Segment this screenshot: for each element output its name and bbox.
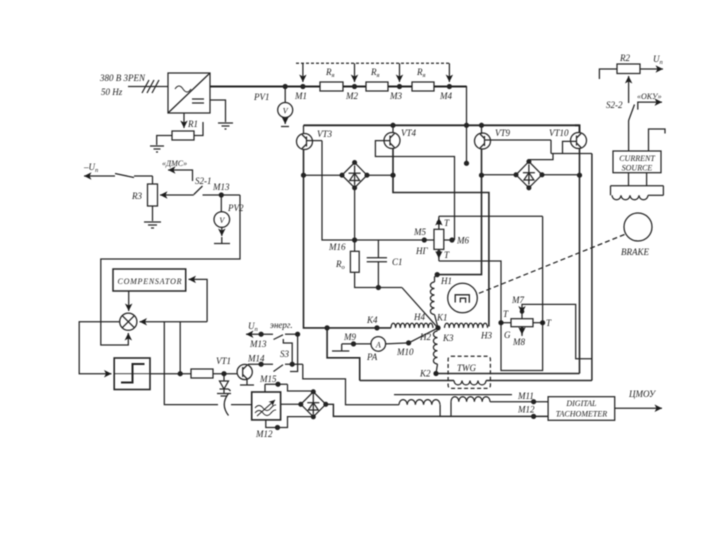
motor circle [448, 283, 478, 313]
svg-text:М15: М15 [259, 374, 277, 384]
ground (R3) [144, 221, 161, 223]
wire relay output feedback tap [179, 322, 181, 374]
switch contact to R3 [115, 174, 134, 178]
svg-text:М13: М13 [212, 182, 230, 192]
svg-text:–Uп: –Uп [83, 162, 98, 174]
svg-text:«ДМС»: «ДМС» [162, 159, 187, 168]
wire multiplier output to relay input [79, 322, 120, 374]
node M3 [398, 85, 402, 89]
wire diamond1 bottom to M16 [354, 188, 356, 252]
wire Up-energ line with switch S3 upper pole [246, 333, 273, 335]
pickup coil B [451, 397, 490, 402]
svg-text:Т: Т [444, 218, 450, 228]
svg-text:R2: R2 [619, 53, 630, 63]
svg-text:VT10: VT10 [549, 128, 569, 138]
svg-text:TWG: TWG [457, 363, 477, 373]
multiplier (circle-X) [120, 313, 137, 330]
block TWG dashed [448, 356, 490, 388]
resistor M7/M8 (thermo) [511, 319, 533, 327]
svg-text:Rо: Rо [335, 259, 346, 271]
svg-text:М10: М10 [396, 347, 414, 357]
wire resistor to VT1 base [213, 373, 237, 375]
switch S2-2 [606, 100, 623, 110]
svg-text:Rя: Rя [370, 67, 380, 79]
label PV1 [253, 92, 270, 102]
diode bridge diamond2 [516, 162, 542, 188]
wire coil A right terminal [439, 405, 441, 417]
wire net-A HG bottom right [439, 216, 543, 370]
wire Ro bottom to motor junction diagonal [355, 272, 402, 287]
svg-text:К3: К3 [442, 333, 454, 343]
thermal lead top [438, 216, 440, 229]
wire rectifier output to ground stub [210, 100, 226, 122]
svg-text:380 В 3PEN: 380 В 3PEN [99, 73, 146, 83]
wire diamond1 row [302, 173, 306, 177]
ground (VT1 emitter) [240, 384, 254, 386]
wire M14 to pickup coil A [303, 364, 399, 405]
resistor Rya3 [412, 82, 434, 91]
label R3 [131, 191, 142, 201]
wire multiplier-net to amp input [164, 322, 218, 405]
wire staircase K4 to TWG line [327, 328, 360, 381]
potentiometer R2 [619, 53, 630, 63]
transistor VT3 [303, 125, 305, 134]
wire PA to M10 and diagonal to junction [386, 343, 409, 344]
wire diamond2 row [482, 174, 517, 176]
arrow onto M1 [302, 63, 304, 82]
wire feedback into multiplier right [140, 321, 208, 323]
wire VT10 base [563, 141, 577, 153]
ammeter PA [341, 344, 343, 351]
node M13 [219, 193, 223, 197]
wire M15 line [259, 374, 277, 384]
svg-text:S2-1: S2-1 [195, 176, 212, 186]
wire compensator output to multiplier [128, 291, 130, 311]
wire bus2 collectors [304, 124, 580, 126]
svg-text:«ОКУ»: «ОКУ» [637, 92, 662, 101]
brake actuator circle [624, 213, 652, 241]
motor rotor coil H1 vertical [435, 273, 439, 277]
arrow onto M4 [448, 63, 450, 82]
svg-text:М13: М13 [249, 339, 267, 349]
label -Up [83, 162, 98, 174]
wire main bus [210, 86, 320, 88]
svg-text:энерг.: энерг. [270, 320, 293, 330]
svg-text:V: V [283, 107, 289, 116]
svg-text:R1: R1 [187, 119, 198, 129]
resistor R1 [172, 131, 194, 140]
wire CS to magnet [628, 173, 630, 186]
potentiometer R3 [148, 184, 158, 206]
svg-text:Rя: Rя [416, 67, 426, 79]
svg-text:К4: К4 [366, 315, 378, 325]
label R1 [187, 119, 198, 129]
svg-text:К2: К2 [419, 369, 431, 379]
svg-text:TACHOMETER: TACHOMETER [556, 410, 608, 419]
svg-text:V: V [219, 216, 225, 225]
svg-text:BRAKE: BRAKE [621, 247, 649, 257]
svg-text:Uп: Uп [653, 54, 663, 66]
svg-text:Н3: Н3 [480, 331, 492, 341]
svg-text:G: G [504, 330, 511, 340]
wire VT9 emitter to motor H1 [437, 175, 481, 274]
text 380V 3PEN label [99, 73, 146, 97]
transistor VT10 [575, 125, 580, 132]
voltmeter PV2 [227, 203, 244, 213]
svg-text:Н4: Н4 [413, 312, 425, 322]
svg-text:VT1: VT1 [216, 356, 231, 366]
svg-text:М12: М12 [255, 429, 273, 439]
wire tachometer output [615, 407, 662, 409]
brake electromagnet coil [611, 185, 664, 187]
resistor Rya1 [320, 82, 343, 91]
transistor VT1 [216, 356, 231, 366]
svg-text:С1: С1 [392, 257, 403, 267]
svg-text:М2: М2 [345, 91, 358, 101]
rectifier U1 box [168, 73, 210, 113]
node motor center junction [436, 326, 440, 330]
svg-text:Rя: Rя [325, 67, 335, 79]
motor stator coil K3 [445, 323, 488, 328]
core line tachogenerator [394, 394, 512, 396]
ground (VD1) [217, 393, 231, 395]
M8 bottom lead [521, 327, 523, 336]
TWG winding [454, 381, 486, 385]
resistor Ro [350, 251, 359, 272]
svg-text:М5: М5 [413, 227, 426, 237]
wire R3 wiper from S2-1 [160, 194, 194, 196]
wire DMS output [168, 170, 193, 181]
svg-text:К1: К1 [436, 313, 447, 323]
node K2 [434, 372, 438, 376]
block CURRENT SOURCE [613, 151, 661, 173]
svg-text:COMPENSATOR: COMPENSATOR [118, 277, 182, 286]
resistor Rya2 [366, 82, 388, 91]
node M1 [301, 85, 305, 89]
ground (R1) [150, 145, 164, 147]
svg-text:М11: М11 [517, 391, 534, 401]
connector arc [224, 394, 228, 416]
wire net-B HG top right [439, 215, 543, 217]
wire R1 left to ground [157, 136, 172, 146]
wire R1 right stub [194, 122, 203, 136]
svg-text:S2-2: S2-2 [606, 100, 623, 110]
dashed field rail [296, 62, 449, 64]
label Up energ [248, 320, 293, 333]
wire CS right stub [649, 129, 666, 151]
diode bridge diamond3 [301, 392, 326, 417]
capacitor C1 [377, 240, 379, 258]
svg-text:50 Hz: 50 Hz [101, 87, 123, 97]
svg-text:ЦМОУ: ЦМОУ [628, 389, 656, 399]
wire VT4 base [375, 141, 454, 240]
wire VT10 emitter [579, 149, 581, 374]
wire base junction rail [551, 153, 592, 155]
zener VD1 [223, 374, 225, 381]
wire K2 to VT10 emitter [436, 373, 580, 375]
svg-text:Н1: Н1 [440, 276, 452, 286]
svg-text:М8: М8 [512, 337, 525, 347]
wire HG right to M6 [444, 239, 455, 241]
transistor VT4 [392, 125, 394, 133]
thermal lead bottom [438, 249, 440, 261]
svg-text:CURRENT: CURRENT [619, 154, 655, 163]
svg-text:М9: М9 [343, 332, 356, 342]
node PV1 tap [283, 85, 287, 89]
svg-text:VT3: VT3 [317, 129, 333, 139]
svg-text:Т: Т [546, 318, 552, 328]
svg-text:PV1: PV1 [253, 92, 270, 102]
block thyristor amp [252, 392, 281, 420]
M7 top lead [522, 304, 592, 358]
resistor (base) [191, 369, 213, 378]
wire S3 net down [290, 334, 298, 371]
wire M14 line with S3 lower pole [247, 354, 265, 364]
svg-text:Uп: Uп [248, 321, 258, 333]
arrow onto M2 [354, 63, 356, 82]
block COMPENSATOR [113, 269, 186, 291]
resistor HG (M5/M6) [422, 238, 426, 242]
node M2 [353, 85, 357, 89]
wire M11 line [490, 401, 548, 403]
svg-text:М7: М7 [511, 295, 524, 305]
wire amp out to bridge left [281, 403, 301, 405]
dashed link brake to motor [476, 235, 625, 295]
ground (PV2) [214, 243, 230, 245]
wire amp bottom M12 [266, 417, 314, 428]
voltmeter PV1 [284, 87, 286, 103]
svg-text:DIGITAL: DIGITAL [565, 399, 597, 408]
svg-text:VT4: VT4 [401, 128, 417, 138]
transistor VT9 [481, 125, 483, 134]
wire VT3 base down to M16 rail [322, 141, 434, 240]
svg-text:М16: М16 [328, 242, 346, 252]
svg-text:НГ: НГ [415, 246, 428, 256]
wire bridge right output [326, 404, 548, 416]
svg-text:Т: Т [503, 309, 509, 319]
wire VT4 emitter staircase [392, 149, 394, 176]
svg-text:А: А [375, 340, 381, 349]
wire to diamond2 top [529, 154, 553, 162]
wire VT10 base net long vertical [591, 154, 593, 381]
svg-text:SOURCE: SOURCE [622, 164, 653, 173]
svg-text:М3: М3 [389, 91, 402, 101]
wire OKU output [638, 102, 662, 110]
node M4 [447, 85, 451, 89]
switch S2-1 [195, 176, 212, 186]
svg-text:VT9: VT9 [495, 128, 511, 138]
svg-text:РА: РА [366, 352, 378, 362]
wire rectifier wiper to R1 [183, 113, 185, 128]
svg-text:Т: Т [444, 250, 450, 260]
switch S3 link bracket [280, 349, 290, 359]
block DIGITAL TACHOMETER [548, 397, 615, 421]
svg-text:М1: М1 [294, 91, 307, 101]
wire -Up lead [84, 175, 115, 177]
arrow onto M3 [399, 63, 401, 82]
block relay (hysteresis) [114, 358, 150, 390]
svg-text:М4: М4 [439, 91, 452, 101]
wire TWG line [360, 380, 454, 382]
wire 3-phase input [128, 86, 168, 88]
svg-text:R3: R3 [131, 191, 142, 201]
wire M4 down stub [449, 87, 466, 164]
svg-text:PV2: PV2 [227, 203, 244, 213]
ground (rectifier) [218, 122, 233, 124]
diode bridge diamond1 [342, 163, 367, 188]
wire M13 loop to multiplier [101, 195, 240, 345]
wire S2-1 to M13 [203, 194, 241, 196]
svg-text:S3: S3 [280, 349, 290, 359]
wire relay output [150, 373, 191, 375]
svg-text:М6: М6 [456, 236, 469, 246]
svg-text:М12: М12 [517, 405, 535, 415]
motor rotor coil H2 vertical [433, 331, 437, 364]
pickup coil A [399, 400, 440, 405]
wire K4 line from VT3 emitter [304, 175, 392, 328]
motor stator coil H4 [391, 323, 433, 328]
label DMS [162, 159, 187, 168]
